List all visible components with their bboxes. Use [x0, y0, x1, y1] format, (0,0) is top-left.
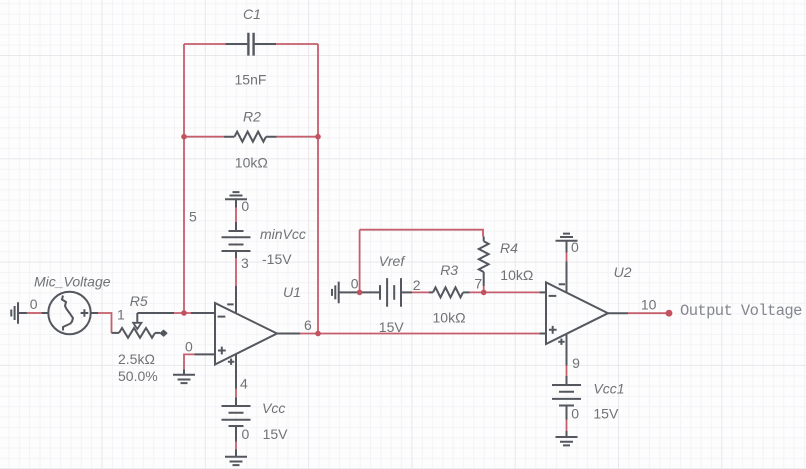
wire Vref battery to R3 (node 2): [412, 291, 429, 293]
svg-text:50.0%: 50.0%: [118, 368, 158, 384]
svg-text:1: 1: [117, 306, 125, 322]
svg-text:10kΩ: 10kΩ: [235, 155, 268, 171]
wire R4 bottom to node7: [483, 286, 485, 292]
U1 pin3 lead into top edge: [235, 286, 237, 313]
svg-text:Output Voltage: Output Voltage: [680, 302, 802, 320]
svg-text:15V: 15V: [593, 405, 619, 421]
battery minVcc -15V: [235, 222, 237, 231]
U2 supply - marker: [559, 283, 565, 285]
node dot U1 output node6: [315, 331, 321, 337]
ground 0 (above U2, pointing up): [556, 234, 578, 241]
ground 0 (U1 noninverting input): [183, 370, 185, 375]
wire feedback-loop left vertical node5: [183, 44, 185, 313]
svg-text:0: 0: [185, 338, 193, 354]
wire R5 wiper to U1 inverting input: [174, 312, 191, 314]
svg-text:2: 2: [413, 277, 421, 293]
U2 output lead: [608, 312, 628, 314]
wire top Vref to R4: [360, 230, 483, 237]
ground 0 (mic, sideways): [18, 312, 27, 314]
wire U2 output to terminal: [628, 312, 669, 314]
R5 wiper lead to node: [137, 312, 174, 314]
U1 noninverting input lead: [195, 353, 216, 355]
wire Vref node0 vertical riser: [359, 230, 361, 293]
battery Vcc 15V: [235, 398, 237, 407]
wire mic ground to source: [27, 312, 41, 314]
ground 0 (above minVcc, pointing up): [225, 192, 247, 199]
svg-text:R3: R3: [440, 262, 458, 278]
ground 0 (Vref, sideways): [339, 291, 352, 293]
svg-text:4: 4: [240, 375, 248, 391]
U2 noninverting input lead: [540, 333, 546, 335]
wire U1 pin3 supply: [235, 258, 237, 286]
U2 input - marker: [549, 295, 557, 297]
svg-text:0: 0: [571, 239, 579, 255]
U2 top supply lead: [566, 262, 568, 293]
wire C1 top right segment: [276, 43, 318, 45]
svg-text:0: 0: [351, 276, 359, 292]
U1 supply - marker: [227, 303, 233, 305]
U1 output lead: [277, 333, 300, 335]
svg-text:9: 9: [572, 355, 580, 371]
wire mic source to R5 pin1: [98, 313, 112, 333]
resistor R2: [224, 136, 277, 138]
svg-text:minVcc: minVcc: [260, 226, 306, 242]
U1 inverting input lead: [191, 312, 215, 314]
svg-text:R4: R4: [500, 240, 518, 256]
U2 supply + marker: [558, 339, 564, 345]
svg-text:6: 6: [304, 317, 312, 333]
node dot loop/R2 left: [181, 134, 187, 140]
svg-text:Vref: Vref: [379, 253, 407, 269]
voltage source Mic_Voltage: [41, 312, 98, 314]
U1 input - marker: [218, 316, 226, 318]
svg-text:U2: U2: [614, 264, 632, 280]
svg-text:15V: 15V: [263, 426, 289, 442]
wire U1 noninverting input to ground: [184, 354, 195, 369]
node dot node5 at U1 input: [181, 310, 187, 316]
wire U2 top pin to ground: [566, 253, 568, 262]
svg-text:-15V: -15V: [262, 251, 292, 267]
wire Vcc1 battery to ground: [566, 420, 568, 432]
svg-text:Vcc: Vcc: [262, 400, 285, 416]
svg-text:0: 0: [571, 406, 579, 422]
svg-text:10kΩ: 10kΩ: [500, 267, 533, 283]
node dot loop/R2 right: [315, 134, 321, 140]
R5 unconnected terminal diamond: [161, 330, 167, 336]
wire U1 output to U2 noninverting input: [300, 333, 540, 335]
U2 inverting input lead: [540, 291, 546, 293]
U1 input + marker: [218, 347, 226, 355]
resistor R3: [429, 291, 433, 293]
battery Vcc1 15V: [566, 376, 568, 385]
wire U1 pin4 to Vcc battery: [235, 389, 237, 398]
op-amp U2: [546, 282, 608, 344]
svg-text:15nF: 15nF: [235, 72, 267, 88]
svg-text:R2: R2: [243, 109, 261, 125]
capacitor C1: [226, 43, 277, 45]
svg-text:0: 0: [242, 426, 250, 442]
resistor R4: [483, 237, 485, 242]
svg-text:10: 10: [641, 297, 657, 313]
U2 pin9 lead: [566, 334, 568, 366]
U1 pin4 lead from bottom edge: [235, 354, 237, 389]
U2 input + marker: [549, 326, 557, 334]
ground (below Vcc): [235, 450, 237, 457]
svg-text:2.5kΩ: 2.5kΩ: [118, 351, 155, 367]
op-amp U1: [215, 303, 277, 365]
wire C1 top left segment: [184, 43, 226, 45]
R5 wiper arrow: [136, 313, 138, 323]
wire ground to minVcc battery: [235, 208, 237, 223]
wire U2 pin9: [566, 366, 568, 377]
node dot node7: [481, 290, 487, 296]
output terminal dot: [666, 310, 673, 317]
svg-text:5: 5: [189, 208, 197, 224]
wire Vcc battery to ground: [235, 442, 237, 450]
wire R2 right segment: [277, 136, 319, 138]
svg-text:U1: U1: [283, 284, 301, 300]
U1 supply + marker: [228, 359, 234, 365]
svg-text:7: 7: [474, 276, 482, 292]
ground (below Vcc1): [566, 431, 568, 437]
svg-text:3: 3: [241, 255, 249, 271]
wire R2 left segment: [184, 136, 224, 138]
svg-text:C1: C1: [243, 6, 261, 22]
svg-text:R5: R5: [130, 293, 148, 309]
svg-text:Vcc1: Vcc1: [593, 381, 624, 397]
node dot Vref node0: [357, 290, 363, 296]
potentiometer R5: [112, 332, 120, 334]
wire feedback-loop right vertical: [317, 44, 319, 334]
svg-text:10kΩ: 10kΩ: [433, 310, 466, 326]
svg-text:0: 0: [241, 198, 249, 214]
wire R3 to node7 to U2 inverting input: [470, 291, 540, 293]
svg-text:15V: 15V: [379, 319, 405, 335]
battery Vref 15V: [352, 291, 380, 293]
svg-text:Mic_Voltage: Mic_Voltage: [34, 274, 111, 290]
svg-text:0: 0: [30, 296, 38, 312]
